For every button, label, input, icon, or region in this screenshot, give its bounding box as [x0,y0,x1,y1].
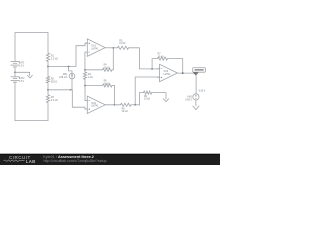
node rail/R6 [84,85,86,87]
svg-text:OA1: OA1 [91,45,96,48]
ground (voltmeter) [193,106,200,110]
wire top loop: battery top to chain top [15,33,48,62]
svg-text:350 Ω: 350 Ω [51,81,57,83]
wire R1 to tap1 [47,62,49,77]
svg-text:10 kΩ: 10 kΩ [122,111,128,113]
node rail/R4 [84,69,86,71]
svg-text:RG: RG [88,74,92,76]
wire feedback riser [152,59,157,69]
node output feedback join [182,72,184,74]
resistor R2 [46,76,57,83]
node op-amp1 output [112,47,114,49]
svg-text:10 kΩ: 10 kΩ [104,83,110,85]
svg-text:10 kΩ: 10 kΩ [104,67,110,69]
resistor R5 [118,40,129,49]
wire R7 to output node [168,59,183,74]
svg-text:10 kΩ: 10 kΩ [158,56,164,58]
wire ground stub [15,72,30,75]
wire RG to op-amp2 inverting input [85,79,87,100]
node ammeter top junction [68,66,70,68]
wire R8 to corner [131,104,139,106]
wire tap1 to op-amp1 + input [48,43,87,66]
node feedback tap [151,68,153,70]
svg-text:LM741: LM741 [91,105,99,107]
resistor RG [83,72,92,79]
ground (R9) [163,99,169,102]
battery BAT2 [11,77,26,83]
wire output to voltmeter [195,73,197,94]
svg-text:1.88 mA: 1.88 mA [59,76,68,79]
node tap1 [47,66,49,68]
ground (battery midpoint) [27,75,32,78]
svg-text:LAB: LAB [26,159,36,164]
resistor R8 [121,103,132,113]
wire riser to op-amp3 noninverting input [135,77,159,105]
node mid battery junction [14,71,16,73]
svg-text:0.00 V: 0.00 V [199,90,206,92]
svg-text:http://circuitlab.com/c/7zwq6c: http://circuitlab.com/c/7zwq6c48e/?setup [44,159,107,163]
svg-text:BAT2: BAT2 [19,77,25,80]
svg-text:1 kΩ: 1 kΩ [88,77,93,79]
svg-text:2.2 kΩ: 2.2 kΩ [51,100,58,102]
footer bar [0,154,220,165]
resistor R3 [46,95,57,103]
svg-text:AM1: AM1 [63,73,68,76]
node ammeter bottom junction [70,89,72,91]
wire op-amp1 output [105,47,117,49]
resistor R4 [85,65,113,72]
node flag V_out [193,68,206,76]
battery BAT1 [11,62,26,68]
svg-text:LM741: LM741 [164,74,172,76]
svg-text:1.5 V: 1.5 V [19,65,25,67]
wire riser R4 to op-amp1 output [112,48,114,70]
svg-text:BAT1: BAT1 [19,62,25,65]
wire R2 to tap2 [47,83,49,95]
node tap2 [47,89,49,91]
node noninverting riser [134,104,136,106]
wire R5 to op-amp3 inverting input [129,48,160,69]
wire junction to ammeter [69,67,73,74]
wire voltmeter to ground [195,100,197,106]
resistor R9 [144,91,152,101]
wire between batteries [14,67,16,77]
wire op-amp1 inverting rail [84,52,86,72]
wire riser R6 to op-amp2 output [113,86,115,105]
svg-text:VM1: VM1 [187,96,192,98]
node op-amp2 output feedback [114,104,116,106]
wire op-amp3 output [177,72,196,74]
ammeter AM1 [59,73,75,79]
wire tap2 to op-amp2 + input [48,90,87,109]
wire op-amp2 output [105,104,120,106]
wire ammeter bottom to tap2 wire [71,79,73,90]
svg-text:OA2: OA2 [91,102,96,105]
svg-text:1.5 V: 1.5 V [19,81,25,83]
svg-text:LM741: LM741 [91,48,99,50]
op-amp OA2 [85,96,105,113]
svg-text:2.2 kΩ: 2.2 kΩ [51,59,58,61]
resistor R7 [158,54,168,61]
wire R9 to ground [152,93,166,99]
svg-text:10 kΩ: 10 kΩ [119,43,125,45]
wire corner up to R9 [139,93,143,105]
op-amp OA3 [157,64,177,81]
op-amp OA1 [85,39,105,57]
svg-text:OA3: OA3 [164,70,169,73]
resistor R6 [85,81,114,87]
resistor R1 [46,53,57,62]
svg-text:0.00 V: 0.00 V [185,99,192,101]
svg-text:10 kΩ: 10 kΩ [144,99,150,101]
voltmeter VM1 [185,94,199,102]
wire battery bottom to loop bottom to chain bottom [15,82,48,120]
